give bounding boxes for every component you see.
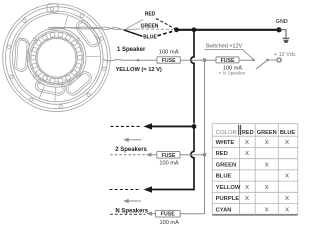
svg-text:COLOR: COLOR [216,130,237,136]
svg-text:X: X [285,196,289,202]
svg-text:RED: RED [242,130,254,136]
svg-text:RED: RED [145,11,156,17]
svg-text:GREEN: GREEN [216,162,237,168]
svg-text:X: X [265,185,269,191]
svg-text:BLUE: BLUE [216,174,232,180]
svg-text:X: X [265,207,269,213]
svg-text:X: X [265,162,269,168]
svg-text:× N Speaker: × N Speaker [219,71,246,77]
svg-text:WHITE: WHITE [216,140,235,146]
svg-text:X: X [285,174,289,180]
svg-text:RED: RED [216,151,228,157]
svg-text:GND: GND [276,19,288,25]
svg-text:1 Speaker: 1 Speaker [117,47,146,53]
svg-text:X: X [285,207,289,213]
svg-text:FUSE: FUSE [162,58,176,64]
svg-text:2 Speakers: 2 Speakers [115,147,147,153]
svg-text:+ 12 Vdc: + 12 Vdc [274,52,296,58]
svg-text:BLUE: BLUE [143,35,157,41]
svg-text:100 mA: 100 mA [160,220,180,226]
svg-text:CYAN: CYAN [216,207,232,213]
svg-text:GREEN: GREEN [141,23,159,29]
svg-text:FUSE: FUSE [221,58,235,64]
svg-text:X: X [285,140,289,146]
svg-text:100 mA: 100 mA [159,50,179,56]
svg-text:100 mA: 100 mA [159,161,179,167]
svg-text:FUSE: FUSE [161,212,175,218]
svg-text:X: X [265,140,269,146]
svg-text:PURPLE: PURPLE [216,196,240,202]
svg-text:N Speakers: N Speakers [115,209,148,215]
svg-text:X: X [245,196,249,202]
svg-text:X: X [245,151,249,157]
svg-text:YELLOW (= 12 V): YELLOW (= 12 V) [116,67,162,73]
svg-text:FUSE: FUSE [161,153,175,159]
svg-text:BLUE: BLUE [280,130,295,136]
svg-text:X: X [245,140,249,146]
svg-text:YELLOW: YELLOW [216,185,241,191]
svg-text:100 mA: 100 mA [223,65,243,71]
svg-text:X: X [245,185,249,191]
svg-text:GREEN: GREEN [257,130,277,136]
svg-text:Switched +12V: Switched +12V [206,43,243,49]
